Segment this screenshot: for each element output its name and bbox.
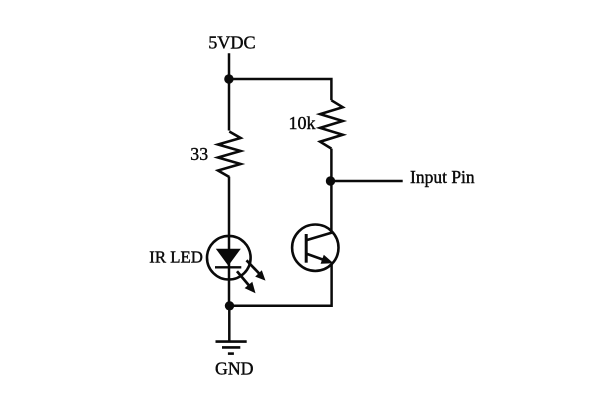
ground symbol bar 1 xyxy=(216,340,247,343)
transistor emitter lead xyxy=(306,254,323,260)
node junction bottom xyxy=(225,301,234,310)
node junction input pin xyxy=(326,176,335,185)
transistor emitter arrowhead xyxy=(321,255,334,264)
wire through LED xyxy=(228,235,231,306)
ground symbol bar 2 xyxy=(222,346,240,349)
svg-text:10k: 10k xyxy=(289,113,316,133)
svg-text:5VDC: 5VDC xyxy=(208,33,256,53)
transistor collector lead xyxy=(306,233,332,241)
transistor base bar xyxy=(305,234,308,263)
phototransistor Q1 circle xyxy=(292,225,338,271)
svg-text:IR LED: IR LED xyxy=(149,247,203,266)
svg-text:GND: GND xyxy=(215,359,254,379)
wire transistor emitter down and bottom horizontal xyxy=(230,265,332,306)
node junction top xyxy=(224,74,233,83)
IR LED D1 circle xyxy=(207,236,251,280)
wire LED to ground xyxy=(228,306,231,342)
resistor R2 10k xyxy=(320,100,343,148)
wire to Input Pin xyxy=(331,180,403,183)
resistor R1 33 xyxy=(218,132,241,178)
wire top horizontal to right branch and down to resistor 10k xyxy=(229,79,331,100)
wire resistor 10k down to transistor xyxy=(330,149,333,233)
wire resistor 33 to IR LED xyxy=(228,177,231,235)
LED emission arrow 2 xyxy=(237,271,256,293)
LED emission arrow 1 xyxy=(247,260,266,280)
ground symbol bar 3 xyxy=(228,352,234,355)
LED anode triangle xyxy=(216,249,241,266)
svg-text:Input Pin: Input Pin xyxy=(410,167,475,187)
wire 5VDC down to resistor 33 xyxy=(228,53,231,130)
LED cathode bar xyxy=(215,266,241,268)
svg-text:33: 33 xyxy=(190,144,208,164)
